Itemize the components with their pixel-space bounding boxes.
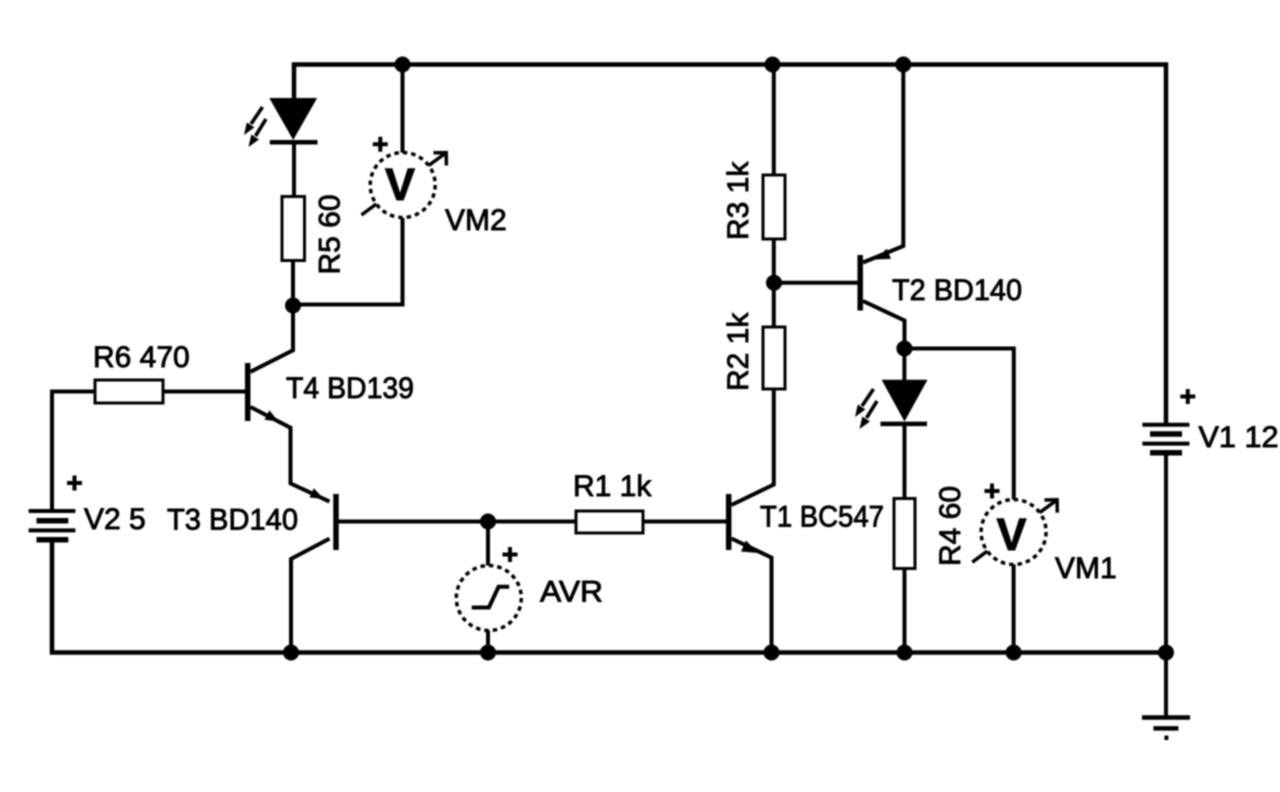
svg-text:R6 470: R6 470 <box>93 341 190 374</box>
node bottom T3 <box>283 645 299 661</box>
voltmeter VM1 circle <box>981 500 1046 565</box>
svg-text:V: V <box>996 509 1026 560</box>
node bottom V1 <box>1158 645 1174 661</box>
node R3/R2/T2 base <box>766 275 782 291</box>
svg-text:R4 60: R4 60 <box>934 486 967 566</box>
wire node B to VM1 top <box>904 349 1013 501</box>
wire LED2 to R4 <box>903 425 907 499</box>
node bottom R4 <box>897 645 913 661</box>
svg-text:R5 60: R5 60 <box>314 194 347 274</box>
wire top rail to R3 top <box>772 65 776 176</box>
svg-text:VM2: VM2 <box>445 204 507 237</box>
transistor T2 bar <box>857 255 863 311</box>
wire top rail to T2 emitter <box>863 65 903 263</box>
resistor R6 <box>95 380 163 403</box>
wire V2 top to R6 <box>52 392 95 512</box>
node bottom VM1 <box>1006 645 1022 661</box>
wire R1 to T1 base <box>643 520 727 524</box>
wire R5 bottom to node A <box>291 260 295 306</box>
svg-text:T2 BD140: T2 BD140 <box>892 274 1022 307</box>
transistor T3 bar <box>333 494 339 550</box>
svg-text:V1 12: V1 12 <box>1199 421 1279 454</box>
node top R3 <box>765 57 781 73</box>
resistor R1 <box>576 511 643 533</box>
wire R6 to T4 base <box>163 390 246 394</box>
voltmeter VM1 plus <box>985 484 1000 499</box>
resistor R3 <box>763 175 785 239</box>
svg-text:AVR: AVR <box>540 576 603 609</box>
svg-text:T1 BC547: T1 BC547 <box>760 501 884 534</box>
svg-text:R1 1k: R1 1k <box>573 470 652 503</box>
wire R3 bottom to R2 top <box>772 239 776 327</box>
source AVR sigmoid <box>472 587 510 608</box>
wire T4 emitter to T3 emitter <box>251 407 330 502</box>
wire T1 emitter to bottom rail <box>732 539 772 653</box>
svg-text:R3 1k: R3 1k <box>722 161 755 240</box>
battery V2 plus <box>67 476 82 491</box>
LED D2 <box>881 380 928 424</box>
battery V1 plate long top <box>1142 423 1189 427</box>
transistor T4 bar <box>245 363 251 421</box>
transistor T4 emitter arrow <box>265 410 279 421</box>
voltmeter VM2 plus <box>373 137 388 152</box>
wire VM1 bottom to bottom rail <box>1012 564 1016 653</box>
svg-text:V: V <box>385 159 415 210</box>
wire T2 base from R2/R3 node <box>774 281 858 285</box>
wire AVR bottom <box>486 629 490 653</box>
svg-text:VM1: VM1 <box>1055 552 1117 585</box>
resistor R4 <box>894 499 915 569</box>
svg-text:T3 BD140: T3 BD140 <box>167 504 298 537</box>
voltmeter VM1 arrow <box>972 500 1057 562</box>
battery V2 plate long <box>29 528 76 532</box>
battery V2 plate short <box>37 518 69 524</box>
resistor R2 <box>763 327 785 389</box>
node bottom AVR <box>480 645 496 661</box>
node bottom T1 <box>764 645 780 661</box>
wire R2 bottom to T1 collector <box>732 389 774 505</box>
node base/AVR <box>480 514 496 530</box>
source AVR circle <box>456 566 521 631</box>
source AVR plus <box>503 547 518 562</box>
resistor R5 <box>282 197 305 261</box>
node A R5/VM2/T4 <box>285 298 301 314</box>
battery V1 plate short <box>1150 431 1182 437</box>
wire T2 collector to node B <box>863 301 905 349</box>
svg-text:T4 BD139: T4 BD139 <box>286 372 414 405</box>
node B T2 collector <box>896 341 912 357</box>
LED D1 <box>269 98 317 142</box>
wire R4 bottom to bottom rail <box>903 568 907 653</box>
wire T3 base to R1 with AVR tap <box>339 520 577 524</box>
transistor T1 bar <box>726 494 732 550</box>
wire node B to LED2 <box>902 349 906 382</box>
wire V1 bottom to ground <box>1164 453 1168 718</box>
battery V1 plus <box>1180 389 1195 404</box>
battery V1 plate short bottom <box>1150 450 1182 456</box>
wire top rail to VM2 top <box>401 65 405 154</box>
svg-text:V2 5: V2 5 <box>84 503 146 536</box>
transistor T1 emitter arrow <box>741 541 758 554</box>
wire AVR top <box>486 522 490 568</box>
LED D1 photo arrows <box>244 107 266 147</box>
transistor T3 emitter arrow (PNP, toward bar) <box>310 488 325 499</box>
node top VM2 <box>395 57 411 73</box>
LED D2 photo arrows <box>855 389 877 429</box>
svg-text:R2 1k: R2 1k <box>722 312 755 391</box>
wire top rail with left corner into LED1 and right corner down to V1 <box>294 65 1166 425</box>
wire node A to VM2 bottom <box>293 218 403 305</box>
wire T4 collector up to node A <box>251 306 294 372</box>
wire LED1 to R5 <box>292 142 296 197</box>
battery V1 plate long <box>1142 442 1189 446</box>
ground <box>1142 718 1190 738</box>
node top T2 <box>895 57 911 73</box>
transistor T2 emitter arrow (PNP, toward bar) <box>875 249 891 260</box>
battery V2 plate long top <box>29 509 76 513</box>
battery V2 plate short bottom <box>37 537 69 543</box>
wire bottom rail with left corner up to V2 <box>52 540 1166 653</box>
wire T3 collector down to bottom rail <box>291 539 330 653</box>
voltmeter VM2 circle <box>370 153 435 218</box>
voltmeter VM2 arrow <box>361 153 446 215</box>
